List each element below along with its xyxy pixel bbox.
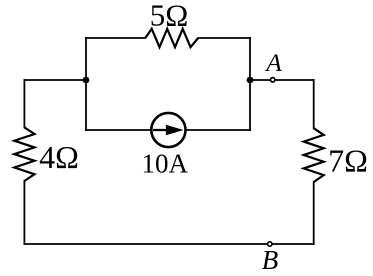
wire middle-branch right <box>185 129 250 131</box>
resistor 4ohm (left branch) <box>14 127 34 181</box>
wire inner-right vertical <box>249 38 251 130</box>
svg-text:5Ω: 5Ω <box>150 0 189 33</box>
wire top-left segment <box>86 37 145 39</box>
svg-text:10A: 10A <box>142 149 189 179</box>
wire middle-branch left <box>86 129 151 131</box>
wire left outer lower <box>23 181 25 244</box>
svg-text:A: A <box>264 48 282 77</box>
svg-text:B: B <box>262 245 279 275</box>
terminal B (open circle) <box>268 242 272 246</box>
junction dot left node <box>83 77 90 84</box>
wire left outer upper <box>23 80 25 127</box>
wire inner-left vertical <box>85 38 87 130</box>
svg-text:4Ω: 4Ω <box>39 139 79 175</box>
wire top-right segment <box>198 37 250 39</box>
resistor 5ohm (top branch) <box>145 29 198 47</box>
junction dot right node <box>247 77 254 84</box>
wire mid-horizontal left (node to outer left) <box>24 79 86 81</box>
wire bottom <box>24 243 313 245</box>
resistor 7ohm (right branch) <box>304 128 324 182</box>
wire right outer upper <box>313 80 315 128</box>
current source I1 circle <box>151 113 185 147</box>
current source arrow <box>153 125 184 135</box>
svg-text:7Ω: 7Ω <box>328 143 368 179</box>
wire right outer lower <box>313 182 315 244</box>
terminal A (open circle) <box>271 78 275 82</box>
wire mid-horizontal right (node through A) <box>250 79 314 81</box>
